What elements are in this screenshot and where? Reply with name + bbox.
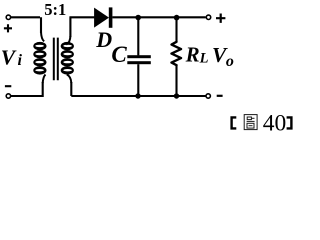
minus sign output — [217, 95, 223, 97]
transformer secondary winding — [61, 42, 74, 75]
terminal bottom-right — [206, 94, 210, 98]
node junction bottom resistor — [174, 93, 179, 98]
wire secondary top lead curve — [66, 36, 70, 45]
wire primary top lead curve — [41, 32, 44, 41]
figure caption bracket left — [232, 117, 237, 128]
wire top-left rail from input terminal to transformer primary — [11, 17, 41, 33]
svg-text:C: C — [111, 42, 127, 67]
minus sign input — [5, 85, 11, 87]
diode D — [94, 8, 109, 28]
transformer primary winding — [33, 42, 46, 75]
resistor RL — [175, 17, 177, 42]
wire secondary bottom lead curve — [67, 75, 72, 84]
terminal top-left — [6, 15, 10, 19]
wire primary bottom lead curve — [43, 75, 46, 84]
svg-text:5:1: 5:1 — [44, 0, 66, 19]
wire bottom rail from secondary to output terminal — [71, 82, 205, 96]
wire top rail from secondary to diode — [69, 17, 94, 37]
capacitor C — [137, 17, 139, 55]
plus sign input — [4, 24, 12, 32]
plus sign output — [216, 14, 225, 23]
figure caption bracket right — [287, 117, 292, 128]
figure caption glyph 圖 — [244, 115, 257, 130]
node junction bottom capacitor — [135, 93, 140, 98]
node junction top resistor — [174, 15, 180, 21]
transformer core — [54, 38, 58, 81]
svg-text:D: D — [95, 27, 112, 52]
svg-text:40: 40 — [263, 111, 287, 137]
terminal top-right — [206, 15, 210, 19]
wire top rail from diode to output terminal — [112, 16, 205, 18]
terminal bottom-left — [6, 94, 10, 98]
node junction top capacitor — [135, 15, 141, 21]
wire bottom-left rail — [11, 82, 43, 96]
